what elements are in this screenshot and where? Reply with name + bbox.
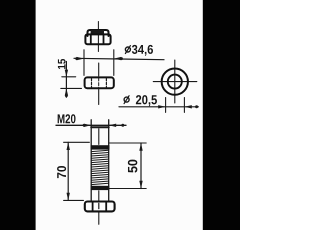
dim 50 arrow top — [139, 143, 142, 151]
arrow left M20 — [84, 124, 91, 127]
nut face line right — [103, 35, 105, 44]
bolt centerline lower — [98, 191, 100, 201]
diameter symbol of 34,6 — [125, 46, 130, 54]
dim 15 arrow bottom — [65, 88, 68, 95]
dimension line M20 — [56, 124, 126, 126]
head face line right — [105, 202, 107, 211]
diameter symbol of 20,5 — [124, 96, 129, 104]
inner circle — [168, 75, 182, 89]
dim 20.5 extension left — [165, 98, 167, 113]
washer centerline inside — [98, 78, 100, 88]
thread lines — [91, 150, 108, 184]
dim 70 line — [67, 142, 69, 200]
dim 15 extension bottom — [61, 87, 82, 89]
washer side view — [85, 77, 114, 88]
label M20 — [58, 114, 76, 123]
outer circle — [162, 68, 188, 94]
dim 70 arrow top — [67, 142, 70, 150]
washer centerline above — [98, 63, 100, 76]
dim 70 extension bottom — [64, 199, 84, 201]
dim 50 extension bottom — [109, 188, 146, 190]
head center dash — [98, 203, 100, 208]
arrow left dim 20.5 — [158, 105, 165, 108]
dim 15 line — [65, 62, 67, 98]
label 20,5 — [136, 95, 157, 106]
dim 50 arrow bottom — [139, 181, 142, 189]
dimension line 34.6 — [74, 58, 164, 59]
centerline through lock nut — [97, 22, 99, 52]
washer hidden line right — [105, 78, 107, 87]
bolt shank left edge — [90, 120, 92, 201]
label 15 (rotated) — [58, 59, 66, 69]
label 34,6 — [132, 45, 153, 56]
dim 20.5 extension right — [183, 98, 185, 113]
dim 15 extension top — [62, 76, 76, 78]
extension line left of dim 34.6 — [83, 50, 85, 76]
bolt centerline upper — [98, 129, 100, 145]
left black scan bar — [0, 0, 36, 230]
circle view vertical centerline — [174, 60, 176, 103]
right black scan bar — [203, 0, 240, 230]
dim 50 extension top — [109, 142, 146, 144]
dimension line 20.5 — [119, 106, 198, 108]
dim 70 arrow bottom — [67, 193, 70, 201]
arrow left dim 34.6 — [77, 57, 84, 60]
arrow right dim 34.6 — [114, 57, 121, 60]
centerline below head — [98, 213, 100, 225]
extension line right of dim 34.6 — [113, 50, 115, 76]
nut face line left — [90, 35, 92, 44]
lock nut hex body — [85, 34, 110, 44]
arrow right M20 — [109, 124, 116, 127]
dim 15 arrow top — [65, 70, 68, 77]
dim 50 line — [140, 143, 142, 189]
lock nut U-collar — [88, 30, 109, 36]
dim 70 extension top — [64, 141, 90, 143]
arrow right dim 20.5 — [184, 105, 191, 108]
washer centerline below — [98, 90, 100, 105]
bolt hex head — [85, 202, 115, 212]
thread start band — [91, 145, 110, 149]
circle view horizontal centerline — [153, 81, 197, 83]
lock nut insert shading — [91, 30, 104, 35]
label 70 (rotated) — [57, 166, 66, 178]
head face line left — [92, 202, 94, 211]
page background — [0, 0, 240, 230]
thread end band — [91, 186, 110, 190]
label 50 (rotated) — [128, 160, 137, 173]
bolt shank right edge — [108, 120, 110, 201]
bolt top edge — [91, 126, 109, 128]
washer hidden line left — [91, 78, 93, 87]
